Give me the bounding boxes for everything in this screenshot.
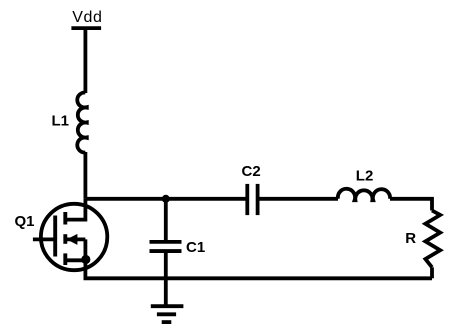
- Q1 body arrow: [67, 234, 86, 245]
- wire L2 to resistor R: [390, 199, 432, 211]
- wire R to bottom rail: [430, 267, 434, 278]
- capacitor C1: [150, 242, 182, 251]
- ground symbol: [151, 306, 184, 322]
- wire C1 to ground: [164, 251, 168, 306]
- svg-text:C2: C2: [242, 163, 261, 180]
- svg-text:L2: L2: [356, 167, 374, 184]
- svg-text:C1: C1: [186, 239, 205, 256]
- capacitor C2: [247, 184, 257, 215]
- inductor L1: [77, 92, 87, 152]
- svg-text:L1: L1: [52, 112, 70, 129]
- Q1 channel segments: [63, 212, 67, 265]
- Q1 source connection: [65, 258, 85, 262]
- bottom rail wire: [85, 260, 432, 278]
- wire C2 to L2: [259, 197, 338, 201]
- Q1 drain connection: [65, 199, 85, 220]
- svg-text:Q1: Q1: [15, 213, 35, 230]
- resistor R: [425, 211, 440, 268]
- wire Vdd rail to L1: [84, 28, 88, 93]
- wire node to C1: [164, 199, 168, 242]
- wire drain node to C2: [85, 197, 245, 201]
- inductor L2: [338, 189, 390, 200]
- Q1 body-source junction dot: [81, 255, 90, 264]
- node junction dot: [162, 195, 170, 203]
- svg-text:R: R: [405, 230, 416, 247]
- svg-text:Vdd: Vdd: [72, 9, 102, 26]
- Q1 body-source wire: [84, 239, 88, 260]
- Vdd power rail: [71, 26, 101, 30]
- Q1 gate bar: [53, 216, 57, 257]
- Q1 gate lead wire: [33, 237, 55, 241]
- wire L1 to drain node: [84, 152, 88, 199]
- transistor Q1 body circle: [41, 204, 107, 270]
